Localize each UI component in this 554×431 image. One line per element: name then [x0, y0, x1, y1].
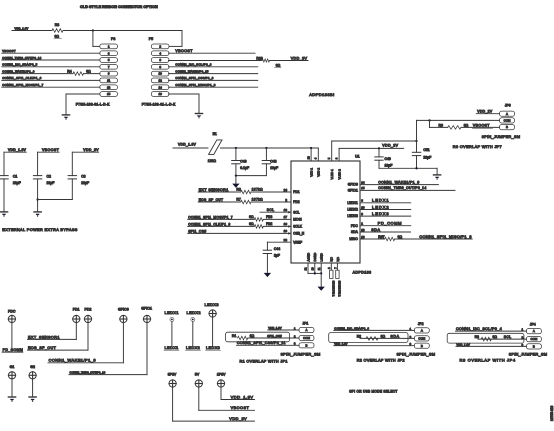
net label VDD_1.8V power	[231, 394, 254, 399]
wire JP6 COM	[417, 120, 500, 141]
pin GPIO0 name	[348, 183, 358, 187]
svg-text:CONN1_TMR0_OUT/P0_14: CONN1_TMR0_OUT/P0_14	[378, 186, 426, 190]
resistor R8 0ohm	[52, 23, 63, 39]
pin number 14 right	[361, 180, 365, 184]
jumper JP6 label	[505, 104, 511, 108]
svg-text:P3: P3	[111, 37, 115, 41]
capacitor C3 22uF	[68, 152, 89, 199]
svg-text:LEDX2: LEDX2	[347, 208, 358, 212]
capacitor C43 10uF	[262, 148, 278, 176]
junction node LGND	[320, 272, 322, 274]
wire LEDX2	[360, 204, 411, 209]
ground P5	[195, 114, 202, 119]
wire E1 to VDD rail	[221, 147, 319, 149]
wire P5 pin6 to R26	[169, 60, 263, 62]
svg-text:12: 12	[284, 208, 288, 212]
text SPI OR USB MODE SELECT	[349, 389, 397, 393]
wire P3 pin7 CONN1_I2C_SDA/P0_5	[2, 63, 100, 67]
net label EXT SENSOR1	[199, 188, 229, 192]
net label VDD_3V	[291, 56, 308, 60]
pin number 6	[334, 157, 338, 159]
svg-text:C40: C40	[240, 159, 246, 163]
wire VDD1 up	[310, 148, 312, 161]
svg-text:CONN1_SPI1_MOSI/P1_7: CONN1_SPI1_MOSI/P1_7	[2, 83, 43, 87]
net label CONN1_WAKE1/P1_0 tp	[48, 358, 123, 363]
pin SCL arrow	[288, 211, 291, 213]
ground G2	[29, 397, 36, 402]
wire C43 to C40 bottom	[236, 175, 267, 177]
svg-text:CSB_N: CSB_N	[293, 232, 305, 236]
net label LEDX3	[206, 346, 221, 350]
svg-text:13: 13	[107, 85, 111, 89]
svg-text:ADPD188BI: ADPD188BI	[309, 92, 334, 97]
svg-text:CONN1_SPI1_CLK/P1_6: CONN1_SPI1_CLK/P1_6	[2, 76, 41, 80]
text figure number 16795-020	[550, 406, 554, 421]
svg-text:R2 OVERLAP WITH JP2: R2 OVERLAP WITH JP2	[357, 359, 405, 363]
ground C40 arrow	[232, 176, 239, 188]
connector P5 FTSH-108-01-L-D-K	[142, 37, 176, 106]
pin SCLK name	[293, 225, 302, 229]
pin VDD2 name	[317, 168, 321, 177]
text R8 OVERLAP WITH JP4	[460, 358, 516, 363]
svg-text:22μF: 22μF	[81, 181, 89, 185]
net label SDA JP2	[390, 334, 399, 338]
svg-text:C2: C2	[47, 174, 51, 178]
svg-text:VDD_3V: VDD_3V	[83, 148, 99, 152]
wire PD1 test point	[75, 323, 77, 340]
svg-text:16795-020: 16795-020	[550, 406, 554, 421]
junction node VDD1	[310, 147, 312, 149]
svg-text:19: 19	[284, 229, 288, 233]
svg-text:11: 11	[107, 79, 110, 83]
svg-text:137kΩ: 137kΩ	[252, 188, 264, 192]
net label SPI1_CS#	[188, 229, 206, 233]
svg-text:3PIN_JUMPER_SM: 3PIN_JUMPER_SM	[482, 135, 520, 139]
svg-text:ADPD188: ADPD188	[353, 271, 372, 275]
wire P3 pin11 CONN1_SPI1_CLK/P1_6	[2, 76, 100, 80]
svg-text:GPIO0: GPIO0	[118, 308, 129, 312]
svg-text:3PIN_JUMPER_SM: 3PIN_JUMPER_SM	[509, 352, 547, 356]
wire GPIO0 test point	[122, 323, 124, 363]
svg-text:LEDX1: LEDX1	[165, 310, 179, 315]
pin number 11 bottom	[317, 267, 321, 270]
svg-text:JP2: JP2	[418, 322, 424, 326]
svg-text:PDC: PDC	[351, 224, 359, 228]
svg-text:0Ω: 0Ω	[398, 235, 403, 239]
wire NC2	[336, 263, 338, 270]
junction node R6 tap	[428, 119, 430, 121]
text R2 OVERLAP WITH JP2	[357, 359, 405, 363]
svg-text:R3: R3	[236, 188, 240, 192]
ferrite bead E1 120ohm	[208, 132, 222, 163]
test point 3P3V	[168, 373, 177, 388]
ferrite bead FB3 0ohm	[249, 215, 291, 221]
pin number 4	[314, 157, 318, 159]
pin number 22	[284, 238, 288, 242]
wire DGND	[314, 263, 316, 273]
svg-text:COM: COM	[303, 336, 310, 340]
test point PD2	[84, 308, 91, 323]
svg-text:PD_COMM: PD_COMM	[3, 348, 23, 352]
svg-text:14: 14	[361, 180, 365, 184]
wire LGND	[320, 263, 322, 273]
pin number 18	[284, 222, 288, 226]
svg-text:GPIO0: GPIO0	[348, 183, 358, 187]
resistor R7 137k	[236, 198, 291, 204]
overlap box R1	[226, 332, 290, 342]
pin PDC name	[351, 224, 359, 228]
svg-text:17: 17	[284, 215, 288, 219]
wire NC1	[330, 263, 332, 270]
wire P5 pin16 to ground	[169, 94, 200, 113]
svg-text:LEDX2: LEDX2	[372, 204, 389, 209]
svg-text:VLED 2: VLED 2	[337, 169, 341, 180]
connector P3 FTSH-108-01-L-D-K	[76, 37, 118, 106]
svg-text:VBOOST: VBOOST	[231, 406, 250, 410]
net label CONN1_I2C_SDA/P0_6	[334, 326, 415, 330]
resistor R26 0ohm	[256, 56, 281, 67]
net label SCL stub	[267, 208, 274, 212]
text 3PIN_JUMPER_SM JP4	[509, 352, 547, 356]
pin LEDX3 name	[347, 214, 358, 218]
net label LEDX1	[164, 346, 179, 350]
net label VDD_1.8V JP4	[456, 343, 526, 347]
svg-text:B: B	[533, 345, 535, 349]
pin number 1 right	[361, 222, 363, 226]
svg-text:VBOOST: VBOOST	[2, 49, 16, 53]
svg-text:PD1: PD1	[73, 308, 80, 312]
svg-text:0Ω: 0Ω	[250, 334, 255, 338]
wire R6 branch	[430, 120, 448, 127]
pin NC1 name	[330, 256, 334, 261]
svg-text:SCL: SCL	[504, 335, 511, 339]
wire P5 pin8 CONN1_I2C_SCL/P0_6	[169, 63, 258, 67]
test point GPIO0	[118, 308, 129, 323]
svg-text:VDD_1.8V: VDD_1.8V	[268, 326, 281, 330]
svg-text:LEDX3: LEDX3	[347, 214, 358, 218]
ground C2	[34, 212, 41, 217]
svg-text:VDD 2: VDD 2	[317, 168, 321, 177]
svg-text:14: 14	[158, 85, 162, 89]
pin number 10 right	[361, 205, 365, 209]
wire R26 to VDD_3V	[270, 60, 309, 62]
wire GPIO1 test point	[146, 323, 148, 375]
net label VDD_3V power	[229, 416, 247, 421]
pin LEDX2 name	[347, 208, 358, 212]
capacitor C49 10uF	[375, 148, 392, 168]
pin number 19	[284, 229, 288, 233]
svg-text:COM: COM	[504, 119, 511, 123]
svg-text:22μF: 22μF	[13, 181, 21, 185]
wire P3 pin3 VBOOST	[2, 49, 100, 53]
wire G2	[32, 379, 34, 396]
svg-text:CONN1_TMR0_OUT/P0_14: CONN1_TMR0_OUT/P0_14	[2, 56, 41, 60]
svg-text:C44: C44	[274, 247, 280, 251]
pin SDA name	[351, 230, 359, 234]
wire AGND	[307, 263, 309, 273]
resistor R1 0ohm	[232, 334, 299, 340]
pin CSB_N name	[293, 232, 305, 236]
svg-text:SDA: SDA	[371, 228, 380, 232]
wire P3 pin15 to ground	[66, 94, 100, 114]
svg-text:FB2: FB2	[266, 222, 272, 226]
wire VDD2 up	[317, 148, 319, 161]
wire P5 pin4 VBOOST	[169, 49, 256, 53]
wire LEDX3	[360, 211, 411, 216]
svg-text:CONN1_I2C_SCL/P0_6: CONN1_I2C_SCL/P0_6	[175, 63, 211, 67]
text R1 OVERLAP WITH JP1	[240, 360, 288, 364]
net label VDD_3V bypass	[72, 148, 99, 152]
pin number 2	[285, 198, 287, 202]
svg-text:R8: R8	[475, 335, 479, 339]
svg-text:A: A	[533, 329, 535, 333]
pin DGND name	[313, 252, 317, 262]
svg-text:CONN1_WAKE1/P1_0: CONN1_WAKE1/P1_0	[2, 69, 35, 73]
svg-text:SPARE PIN 1: SPARE PIN 1	[331, 281, 335, 297]
net label VDD_2V at C49	[382, 144, 398, 148]
wire LEDX1	[360, 198, 411, 203]
svg-text:SDA: SDA	[390, 334, 399, 338]
svg-text:0Ω: 0Ω	[381, 334, 386, 338]
svg-text:R2: R2	[357, 334, 361, 338]
svg-text:SDA: SDA	[351, 230, 359, 234]
wire VREF	[267, 242, 291, 250]
wire C3 to C2 ground	[38, 199, 73, 201]
text ADPD188	[353, 271, 372, 275]
svg-text:VREF: VREF	[293, 240, 302, 244]
svg-text:22μF: 22μF	[423, 155, 431, 159]
svg-text:LEDX1: LEDX1	[347, 201, 358, 205]
pin MOSI name	[293, 218, 302, 222]
svg-text:ECG_SP_OUT: ECG_SP_OUT	[199, 198, 223, 202]
svg-text:GPIO1: GPIO1	[348, 189, 358, 193]
capacitor C40 0.1uF	[232, 148, 249, 176]
svg-text:VBOOST: VBOOST	[42, 148, 60, 152]
wire PD2 test point	[87, 323, 89, 351]
wire P5 pin12 CONN1_SPI1_CS0/P1_9	[169, 76, 258, 80]
test point 5V	[195, 373, 203, 388]
net label CONN1_SPI1_MISO/P1_8 right	[419, 235, 471, 239]
svg-text:ECG_SP_OUT: ECG_SP_OUT	[28, 346, 57, 350]
wire P3 pin9 CONN1_WAKE1/P1_0	[2, 69, 73, 73]
spare pin terminator 2	[336, 270, 342, 297]
svg-text:0Ω: 0Ω	[86, 69, 91, 73]
svg-text:CONN1_SPI1_MOSI/P1_7: CONN1_SPI1_MOSI/P1_7	[188, 215, 233, 219]
wire LEDX1 test point	[171, 322, 173, 346]
svg-text:15: 15	[107, 92, 111, 96]
svg-text:0.1μF: 0.1μF	[240, 166, 249, 170]
wire MOSI	[188, 218, 255, 220]
wire 5V to VBOOST	[199, 387, 255, 410]
test point G2	[29, 365, 36, 379]
net label ECG_SP_OUT tp	[28, 346, 89, 350]
svg-text:JP4: JP4	[530, 323, 536, 327]
text 3PIN_JUMPER_SM JP1	[281, 352, 321, 357]
test point PDC	[8, 309, 16, 322]
test point LEDX3	[205, 302, 219, 317]
svg-text:PD2: PD2	[293, 200, 300, 204]
svg-text:B: B	[506, 125, 508, 129]
svg-text:PD1: PD1	[293, 190, 300, 194]
svg-text:1P8V: 1P8V	[217, 373, 226, 377]
svg-text:SPI1_CS#: SPI1_CS#	[188, 229, 206, 233]
ground chip arrow	[318, 273, 325, 290]
test point LEDX2	[187, 310, 201, 321]
title OLD STYLE RIBBON CONNECTOR OPTION	[80, 5, 158, 9]
svg-text:SPI1_CS#: SPI1_CS#	[267, 334, 282, 338]
svg-text:0Ω: 0Ω	[276, 64, 281, 68]
svg-text:CONN1_I2C_SDA/P0_6: CONN1_I2C_SDA/P0_6	[334, 326, 369, 330]
jumper JP1 3PIN_JUMPER_SM	[294, 322, 314, 348]
net label ECG_SP_OUT	[199, 198, 223, 202]
svg-text:G2: G2	[30, 365, 35, 369]
svg-text:1μF: 1μF	[274, 254, 280, 258]
svg-text:LEDX1: LEDX1	[165, 346, 179, 350]
svg-text:VDD_2V: VDD_2V	[382, 144, 398, 148]
ground C1	[0, 212, 7, 217]
resistor R6 0ohm	[439, 124, 469, 130]
svg-text:10μF: 10μF	[270, 166, 278, 170]
wire PD1	[198, 191, 240, 193]
svg-text:U1: U1	[355, 154, 360, 158]
wire GPIO0	[360, 180, 438, 184]
wire PDC	[360, 221, 411, 226]
svg-text:B: B	[421, 344, 423, 348]
svg-text:15: 15	[361, 186, 365, 190]
pin number 9 right	[361, 212, 363, 216]
svg-text:0Ω: 0Ω	[249, 215, 254, 219]
test point G1	[8, 365, 15, 379]
pin number 21 bottom	[304, 267, 308, 270]
wire VDD_1.8V to R8	[12, 30, 52, 32]
svg-text:120Ω: 120Ω	[208, 159, 217, 163]
svg-text:R67: R67	[378, 235, 384, 239]
pin number 13 right	[361, 228, 365, 232]
wire 1P8V to VDD_1.8V	[221, 387, 255, 399]
jumper JP6 3PIN_JUMPER_SM	[482, 111, 520, 139]
junction node C40 gnd	[235, 174, 237, 176]
svg-text:CONN1_TMR0_OUT/P0_14: CONN1_TMR0_OUT/P0_14	[70, 371, 106, 375]
svg-text:LEDX1: LEDX1	[372, 198, 389, 203]
net label VBOOST power	[231, 406, 250, 410]
net label VBOOST at JP6	[461, 124, 500, 129]
svg-text:0Ω: 0Ω	[493, 335, 498, 339]
ground G1	[8, 397, 15, 402]
svg-text:VBOOST: VBOOST	[175, 49, 193, 53]
junction node C2-C3	[36, 198, 38, 200]
svg-text:R6 OVERLAP WITH JP7: R6 OVERLAP WITH JP7	[453, 144, 502, 149]
test point LEDX1	[165, 310, 179, 321]
wire P5 pin10 CONN1_WAKE0/P0_15	[169, 69, 258, 73]
svg-text:VDD_1.8V: VDD_1.8V	[231, 394, 254, 399]
wire SCL	[260, 211, 291, 213]
spare pin terminator 1	[330, 270, 336, 297]
svg-text:CONN1_I2C_SCL/P0_4: CONN1_I2C_SCL/P0_4	[456, 327, 502, 331]
pin number 16 right	[361, 235, 365, 239]
svg-text:R1 OVERLAP WITH JP1: R1 OVERLAP WITH JP1	[240, 360, 288, 364]
resistor R4 0ohm	[67, 69, 100, 75]
junction node VDD_1.8V at P3	[92, 29, 94, 31]
svg-text:0Ω: 0Ω	[249, 222, 254, 226]
net label VDD_1.8V	[15, 26, 29, 30]
net label VDD_1.8V bypass	[4, 148, 27, 152]
pin NC2 name	[336, 256, 340, 261]
wire junction to P5 pin2	[93, 31, 182, 47]
wire C49 bottom to ground	[379, 167, 437, 169]
svg-text:10: 10	[158, 72, 162, 76]
svg-text:GPIO1: GPIO1	[141, 307, 152, 311]
svg-text:FB3: FB3	[266, 215, 272, 219]
text 3PIN_JUMPER_SM JP2	[397, 353, 435, 357]
svg-text:LEDX2: LEDX2	[187, 310, 201, 315]
pin CSB_N arrow	[288, 232, 291, 234]
net label VDD_1.8V at E1	[178, 142, 197, 146]
wire CSB_N	[188, 232, 291, 234]
pin SCL name	[293, 210, 300, 214]
svg-text:C1: C1	[13, 174, 17, 178]
net label VBOOST bypass	[38, 148, 60, 152]
svg-text:CONN1_I2C_SDA/P0_5: CONN1_I2C_SDA/P0_5	[2, 63, 37, 67]
svg-text:22μF: 22μF	[47, 181, 55, 185]
svg-text:A: A	[506, 112, 508, 116]
wire P3 pin5 CONN1_TMR0_OUT/P0_14	[2, 56, 100, 60]
wire SCLK	[188, 225, 255, 227]
wire 3P3V to VDD_3V	[173, 387, 255, 421]
wire PDC test point	[11, 323, 13, 353]
ground P3	[62, 115, 69, 120]
net label LEDX2	[186, 346, 201, 350]
svg-text:18: 18	[284, 222, 288, 226]
svg-text:A: A	[421, 329, 423, 333]
svg-text:G1: G1	[10, 365, 15, 369]
svg-text:CONN1_WAKE1/P1_0: CONN1_WAKE1/P1_0	[49, 358, 97, 363]
svg-text:10μF: 10μF	[385, 163, 393, 167]
svg-text:MISO: MISO	[349, 237, 358, 241]
pin VDD1 name	[309, 168, 313, 177]
svg-text:16: 16	[361, 235, 365, 239]
svg-text:R7: R7	[236, 198, 240, 202]
wire R8 to junction	[63, 30, 93, 32]
svg-text:VDD_3V: VDD_3V	[291, 56, 308, 60]
pin number 8 right	[361, 199, 363, 203]
svg-text:R1: R1	[232, 334, 236, 338]
svg-text:10: 10	[361, 205, 365, 209]
svg-text:R26: R26	[256, 56, 262, 60]
svg-text:CONN1_SPI1_CS0/P1_9: CONN1_SPI1_CS0/P1_9	[175, 76, 213, 80]
svg-text:LEDX3: LEDX3	[206, 346, 220, 350]
svg-text:LEDX2: LEDX2	[186, 346, 200, 350]
svg-text:OLD STYLE RIBBON CONNECTOR OPT: OLD STYLE RIBBON CONNECTOR OPTION	[80, 5, 158, 9]
pin AGND name	[306, 252, 310, 262]
ground VDD_2V	[434, 168, 441, 179]
svg-text:23: 23	[306, 156, 310, 159]
pin number 3 bottom	[327, 267, 331, 269]
overlap box R8 JP4	[447, 333, 524, 343]
svg-text:R8 OVERLAP WITH JP4: R8 OVERLAP WITH JP4	[460, 358, 516, 363]
svg-text:CONN1_WAKE1/P1_0: CONN1_WAKE1/P1_0	[378, 180, 419, 184]
svg-text:JP1: JP1	[302, 322, 308, 326]
svg-text:VLED 1: VLED 1	[330, 169, 334, 180]
net label CONN1_I2C_SCL/P0_4	[456, 327, 527, 331]
svg-text:A: A	[306, 328, 308, 332]
svg-text:VDD_1.8V: VDD_1.8V	[15, 26, 29, 30]
svg-text:E1: E1	[213, 132, 217, 136]
svg-text:16: 16	[158, 92, 162, 96]
test point 1P8V	[217, 373, 226, 388]
op-amp U1 ADPD188 body	[291, 154, 360, 263]
pin PD1 name	[293, 190, 300, 194]
svg-text:FTSH-108-01-L-D-K: FTSH-108-01-L-D-K	[142, 102, 176, 106]
